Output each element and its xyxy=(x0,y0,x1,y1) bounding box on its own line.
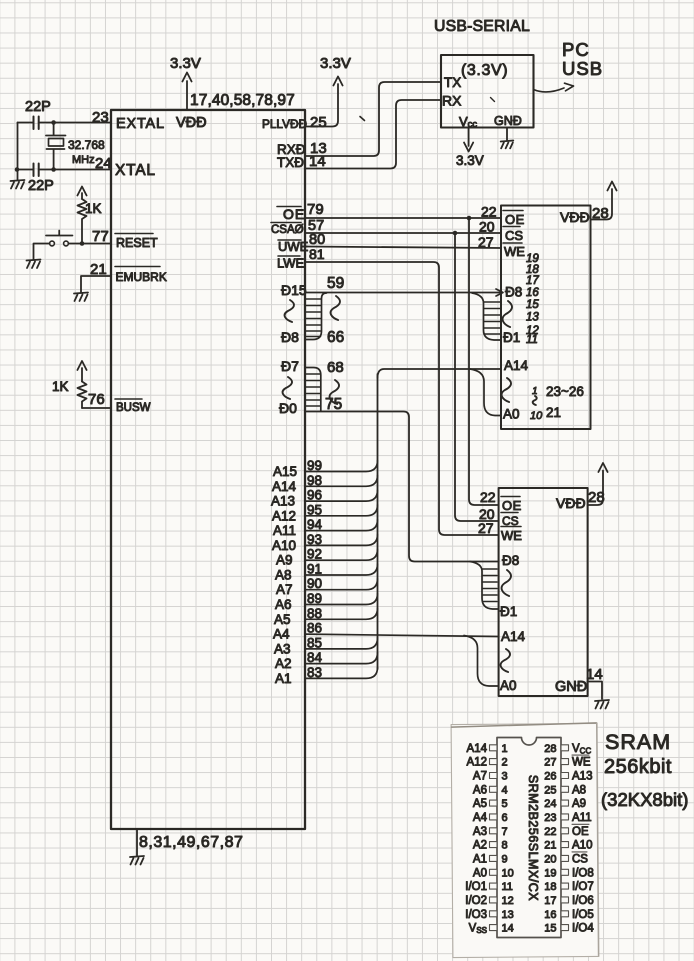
power arrow 3.3V VDD xyxy=(186,81,188,110)
svg-text:A9: A9 xyxy=(276,553,293,568)
svg-text:A8: A8 xyxy=(275,568,292,583)
svg-text:RX: RX xyxy=(442,93,462,109)
address bus vertical xyxy=(377,374,379,669)
DIP package outline xyxy=(497,738,561,938)
DIP pin 1 A14 xyxy=(467,743,508,755)
svg-text:WE: WE xyxy=(501,528,522,543)
svg-text:27: 27 xyxy=(544,757,556,769)
wire A4 pin 86 / address bus to SRAM2 A14 xyxy=(305,634,498,636)
svg-text:I/O2: I/O2 xyxy=(465,895,487,907)
wire LWE to SRAM2 WE xyxy=(305,262,499,535)
svg-text:28: 28 xyxy=(544,743,556,755)
squiggle SRAM1 D8-D1 xyxy=(503,301,512,327)
svg-text:26: 26 xyxy=(544,771,556,783)
DIP pin 7 A3 xyxy=(473,826,508,838)
svg-text:75: 75 xyxy=(325,396,342,413)
svg-text:GNĐ: GNĐ xyxy=(555,679,587,695)
junction crystal bottom xyxy=(51,167,56,172)
svg-text:8: 8 xyxy=(502,840,508,852)
wire CS branch to SRAM2 CS xyxy=(455,233,499,521)
svg-text:32.768: 32.768 xyxy=(68,138,105,152)
svg-text:A8: A8 xyxy=(572,784,586,796)
ground xyxy=(595,700,609,709)
svg-text:A2: A2 xyxy=(275,656,292,671)
svg-text:24: 24 xyxy=(544,798,556,810)
svg-text:A11: A11 xyxy=(273,523,296,538)
svg-text:GNĐ: GNĐ xyxy=(494,114,522,128)
squiggle SRAM2 D8-D1 xyxy=(502,570,511,596)
svg-text:A4: A4 xyxy=(273,627,290,642)
svg-text:PLLVĐĐ: PLLVĐĐ xyxy=(262,117,307,131)
wire SRAM1 VDD pin 28 to 3.3V xyxy=(591,189,613,220)
resistor R2 1K xyxy=(78,382,87,409)
svg-text:Đ0: Đ0 xyxy=(279,400,297,416)
svg-text:BUSW: BUSW xyxy=(116,402,151,414)
svg-text:A6: A6 xyxy=(473,784,487,796)
wire Vcc to 3.3V xyxy=(468,128,470,147)
wire SW1 to ground xyxy=(34,244,50,260)
bus hatch SRAM1 D8-D1 xyxy=(472,293,501,340)
svg-text:A10: A10 xyxy=(272,538,296,553)
svg-text:A13: A13 xyxy=(572,771,592,783)
wire GND pins 8,31,49,67,87 xyxy=(136,829,138,856)
wire A9 pin 92 to address bus xyxy=(305,549,378,560)
svg-text:27: 27 xyxy=(478,520,494,536)
svg-text:Đ1: Đ1 xyxy=(503,330,520,345)
wire A13 pin 96 to address bus xyxy=(305,490,378,501)
wire D15-D8 bus to SRAM1 D8 (pin 59) xyxy=(305,292,501,294)
svg-text:SRAM: SRAM xyxy=(605,730,671,754)
DIP pin 11 I/O1 xyxy=(465,881,513,893)
svg-text:25: 25 xyxy=(310,114,327,131)
stray pen tick 1 xyxy=(360,117,365,121)
wire ground rail left xyxy=(17,123,19,181)
svg-text:A0: A0 xyxy=(500,678,517,693)
svg-text:I/O5: I/O5 xyxy=(572,909,594,921)
svg-text:A9: A9 xyxy=(572,798,586,810)
svg-text:(32KX8bit): (32KX8bit) xyxy=(601,789,688,810)
squiggle pin numbers 1-10 xyxy=(533,396,537,405)
svg-text:XTAL: XTAL xyxy=(115,162,156,179)
stray pen tick 2 xyxy=(491,98,495,102)
svg-text:77: 77 xyxy=(92,228,109,245)
ground xyxy=(11,180,25,189)
svg-text:A11: A11 xyxy=(572,812,592,824)
svg-text:A14: A14 xyxy=(467,743,488,755)
DIP pin 9 A1 xyxy=(473,853,508,865)
svg-text:18: 18 xyxy=(544,881,556,893)
wire UWE to SRAM1 WE xyxy=(305,247,501,249)
svg-text:CSAØ: CSAØ xyxy=(271,224,304,236)
svg-text:20: 20 xyxy=(479,219,495,235)
svg-text:14: 14 xyxy=(586,666,603,683)
DIP pin 18 I/O7 xyxy=(544,881,593,893)
svg-text:A10: A10 xyxy=(572,840,592,852)
junction crystal top xyxy=(51,120,56,125)
DIP pin 5 A5 xyxy=(473,798,508,810)
svg-text:7: 7 xyxy=(502,826,508,838)
DIP pin 4 A6 xyxy=(473,784,508,796)
wire EXTAL cap segment xyxy=(18,122,34,124)
wire address bus branch to SRAM1 A0 xyxy=(470,369,501,416)
wire OE to SRAM1 OE xyxy=(305,217,501,219)
power arrow for R2 xyxy=(81,368,83,382)
DIP pin 16 I/O5 xyxy=(544,909,593,921)
wire USB GND stub xyxy=(506,128,508,141)
svg-text:25: 25 xyxy=(544,784,556,796)
svg-text:1: 1 xyxy=(502,743,508,755)
svg-text:11: 11 xyxy=(502,881,513,893)
svg-text:22P: 22P xyxy=(25,99,51,115)
junction left rail xyxy=(15,167,20,172)
svg-text:6: 6 xyxy=(502,812,508,824)
wire A2 pin 84 to address bus xyxy=(305,653,378,664)
svg-text:A7: A7 xyxy=(473,771,487,783)
svg-text:79: 79 xyxy=(307,201,324,218)
DIP pin 25 A8 xyxy=(544,784,586,796)
DIP pin 20 CS xyxy=(544,852,588,866)
svg-text:2: 2 xyxy=(502,757,508,769)
svg-text:LWE: LWE xyxy=(277,256,305,271)
svg-text:WE: WE xyxy=(572,757,591,769)
svg-text:14: 14 xyxy=(309,153,326,170)
svg-text:13: 13 xyxy=(502,909,514,921)
svg-text:A0: A0 xyxy=(473,867,487,879)
DIP pin 19 I/O8 xyxy=(544,867,593,879)
svg-text:15: 15 xyxy=(526,299,539,311)
svg-text:23: 23 xyxy=(544,812,556,824)
svg-text:OE: OE xyxy=(283,206,305,222)
svg-text:A1: A1 xyxy=(275,671,292,686)
ground xyxy=(74,293,88,302)
svg-text:5: 5 xyxy=(502,798,508,810)
svg-text:I/O4: I/O4 xyxy=(572,923,594,935)
DIP pin 14 VSS xyxy=(469,923,514,936)
svg-text:Đ8: Đ8 xyxy=(281,329,299,345)
squiggle D15-D8 xyxy=(285,300,294,322)
capacitor C2 22P xyxy=(34,164,39,177)
svg-text:Đ15: Đ15 xyxy=(281,282,307,298)
svg-text:A2: A2 xyxy=(473,840,487,852)
wire MCU TXD to USB RX xyxy=(305,100,441,169)
junction CS branch xyxy=(453,231,458,236)
DIP pin 21 A10 xyxy=(544,840,592,852)
squiggle D7-D0 xyxy=(283,377,292,399)
ground xyxy=(130,856,144,865)
svg-text:8,31,49,67,87: 8,31,49,67,87 xyxy=(139,834,243,851)
svg-text:Đ8: Đ8 xyxy=(502,553,519,568)
svg-text:23: 23 xyxy=(92,109,109,126)
svg-text:I/O6: I/O6 xyxy=(572,895,594,907)
wire address bus to SRAM1 A14 xyxy=(378,369,502,378)
SRAM U2 body xyxy=(501,206,591,430)
DIP pin 23 A11 xyxy=(544,812,591,824)
svg-text:15: 15 xyxy=(544,923,556,935)
svg-text:19: 19 xyxy=(544,867,556,879)
squiggle SRAM2 A14-A0 xyxy=(501,649,510,672)
MCU U1 body xyxy=(111,110,305,829)
wire BUSW pin 76 xyxy=(82,407,111,409)
svg-text:I/O1: I/O1 xyxy=(465,881,487,893)
squiggle 59-66 xyxy=(331,296,340,320)
wire A12 pin 95 to address bus xyxy=(305,505,378,516)
DIP pin 8 A2 xyxy=(473,840,508,852)
DIP pin 28 VCC xyxy=(544,743,591,756)
SRAM U3 body xyxy=(499,488,588,696)
ground xyxy=(27,260,41,269)
DIP pin 26 A13 xyxy=(544,771,592,783)
svg-text:TXĐ: TXĐ xyxy=(277,155,304,170)
junction RESET xyxy=(80,241,85,246)
svg-text:24: 24 xyxy=(95,155,112,172)
svg-text:3: 3 xyxy=(502,771,508,783)
wire XTAL pin 24 xyxy=(39,169,111,171)
DIP pin 27 WE xyxy=(544,755,591,769)
svg-text:22P: 22P xyxy=(28,178,54,194)
svg-text:16: 16 xyxy=(526,287,539,299)
svg-text:VĐĐ: VĐĐ xyxy=(560,209,590,225)
svg-text:17: 17 xyxy=(526,275,539,287)
svg-text:14: 14 xyxy=(502,923,514,935)
DIP pin 24 A9 xyxy=(544,798,586,810)
svg-text:21: 21 xyxy=(546,405,561,420)
svg-text:A3: A3 xyxy=(274,641,291,656)
svg-text:256kbit: 256kbit xyxy=(604,756,672,778)
ground xyxy=(501,141,514,149)
junction OE branch xyxy=(467,216,472,221)
svg-text:22: 22 xyxy=(544,826,556,838)
svg-text:A5: A5 xyxy=(274,612,291,627)
wire PLLVDD pin 25 to 3.3V xyxy=(305,84,338,127)
svg-text:4: 4 xyxy=(502,784,508,796)
svg-text:CS: CS xyxy=(505,228,523,243)
SRAM pinout datasheet clipping xyxy=(451,723,599,958)
svg-text:68: 68 xyxy=(327,359,344,376)
wire A3 pin 85 to address bus xyxy=(305,638,378,649)
svg-text:OE: OE xyxy=(502,498,522,513)
svg-text:3.3V: 3.3V xyxy=(456,153,484,168)
svg-text:28: 28 xyxy=(588,489,605,506)
svg-text:MHz: MHz xyxy=(72,154,95,166)
svg-text:I/O7: I/O7 xyxy=(572,881,594,893)
svg-text:21: 21 xyxy=(544,840,556,852)
wire EXTAL pin 23 xyxy=(39,122,111,124)
svg-text:A6: A6 xyxy=(275,597,292,612)
svg-text:EXTAL: EXTAL xyxy=(116,116,165,132)
svg-text:A14: A14 xyxy=(272,479,297,494)
svg-text:WE: WE xyxy=(504,244,525,259)
svg-text:1K: 1K xyxy=(85,201,102,216)
svg-text:VĐĐ: VĐĐ xyxy=(556,495,586,511)
DIP pin 17 I/O6 xyxy=(544,895,593,907)
svg-text:1K: 1K xyxy=(52,379,69,394)
svg-text:A3: A3 xyxy=(473,826,487,838)
svg-text:28: 28 xyxy=(592,205,609,222)
svg-text:I/O8: I/O8 xyxy=(572,867,594,879)
wire A8 pin 91 to address bus xyxy=(305,564,378,575)
svg-text:I/O3: I/O3 xyxy=(465,909,487,921)
svg-text:A0: A0 xyxy=(503,407,520,422)
svg-text:PC: PC xyxy=(562,39,590,60)
DIP pin 6 A4 xyxy=(473,812,508,824)
svg-text:12: 12 xyxy=(502,895,514,907)
svg-text:UWE: UWE xyxy=(278,239,309,254)
wire MCU RXD to USB TX xyxy=(305,82,441,156)
squiggle 68-75 xyxy=(330,380,339,404)
DIP pin 22 OE xyxy=(544,824,589,838)
svg-text:22: 22 xyxy=(481,204,497,220)
svg-text:13: 13 xyxy=(526,312,539,324)
wire A1 pin 83 to address bus xyxy=(305,667,378,678)
wire SRAM2 GND pin 14 xyxy=(588,682,603,700)
svg-text:Đ1: Đ1 xyxy=(500,604,517,619)
svg-text:76: 76 xyxy=(88,391,105,408)
svg-text:A4: A4 xyxy=(473,812,488,824)
svg-text:9: 9 xyxy=(502,853,508,865)
svg-text:3.3V: 3.3V xyxy=(320,55,351,72)
svg-text:A14: A14 xyxy=(504,358,529,373)
capacitor C1 22P xyxy=(34,117,39,130)
wire EMUBRK pin 21 xyxy=(81,276,111,293)
svg-text:A7: A7 xyxy=(276,582,293,597)
wire A14 pin 98 to address bus xyxy=(305,475,378,486)
svg-text:3.3V: 3.3V xyxy=(170,55,201,72)
svg-text:17,40,58,78,97: 17,40,58,78,97 xyxy=(190,92,295,109)
svg-text:A12: A12 xyxy=(467,757,487,769)
wire RESET pin 77 xyxy=(68,243,111,245)
arrow USB-SERIAL to PC USB xyxy=(534,88,565,92)
pushbutton SW1 xyxy=(50,241,55,246)
svg-text:A5: A5 xyxy=(473,798,487,810)
DIP pin 15 I/O4 xyxy=(544,923,594,935)
svg-text:A12: A12 xyxy=(272,508,296,523)
svg-text:USB: USB xyxy=(562,58,603,79)
svg-text:A14: A14 xyxy=(501,629,526,644)
svg-text:OE: OE xyxy=(572,826,589,838)
wire SRAM2 VDD pin 28 to 3.3V xyxy=(588,471,604,506)
svg-text:EMUBRK: EMUBRK xyxy=(116,270,167,284)
DIP pin 2 A12 xyxy=(467,757,508,769)
svg-text:(3.3V): (3.3V) xyxy=(461,62,508,79)
svg-text:20: 20 xyxy=(544,853,556,865)
svg-text:16: 16 xyxy=(544,909,556,921)
svg-text:27: 27 xyxy=(478,234,494,250)
svg-text:23~26: 23~26 xyxy=(546,384,584,399)
wire address bus branch to SRAM2 A0 xyxy=(464,636,498,687)
svg-text:17: 17 xyxy=(544,895,556,907)
svg-text:A1: A1 xyxy=(473,853,487,865)
wire OE branch to SRAM2 OE xyxy=(469,218,499,505)
bus hatch SRAM2 D8-D1 xyxy=(470,562,498,610)
DIP pin 10 A0 xyxy=(473,867,514,879)
bus hatch D7-D0 xyxy=(305,368,321,412)
squiggle SRAM1 A14-A0 xyxy=(502,378,511,402)
svg-text:A13: A13 xyxy=(271,494,295,509)
wire A15 pin 99 to address bus xyxy=(305,461,378,472)
svg-text:VĐĐ: VĐĐ xyxy=(176,115,207,131)
DIP pin 13 I/O3 xyxy=(465,909,513,921)
bus hatch D15-D8 xyxy=(305,293,327,340)
svg-text:59: 59 xyxy=(327,275,344,292)
wire CSA0 to SRAM1 CS xyxy=(305,232,501,234)
svg-text:TX: TX xyxy=(444,75,461,90)
svg-text:A15: A15 xyxy=(273,464,297,479)
svg-text:10: 10 xyxy=(530,410,543,422)
wire A5 pin 88 to address bus xyxy=(305,608,378,619)
DIP pin 12 I/O2 xyxy=(465,895,513,907)
wire A6 pin 89 to address bus xyxy=(305,594,378,605)
arrowhead into SRAM1 D8 xyxy=(496,289,503,296)
svg-text:RESET: RESET xyxy=(116,236,158,250)
power arrow 3.3V for R1 xyxy=(81,193,83,199)
wire XTAL cap segment xyxy=(18,169,34,171)
svg-text:USB-SERIAL: USB-SERIAL xyxy=(434,18,530,35)
svg-text:SRM2B256SLMX/CX: SRM2B256SLMX/CX xyxy=(526,775,540,901)
wire A10 pin 93 to address bus xyxy=(305,534,378,545)
svg-text:CS: CS xyxy=(572,853,588,865)
resistor R1 1K xyxy=(78,199,87,244)
wire D7-D0 bus to SRAM2 D8 (pin 75) xyxy=(305,412,499,562)
svg-text:66: 66 xyxy=(327,329,344,346)
svg-text:Đ7: Đ7 xyxy=(281,358,299,374)
svg-text:OE: OE xyxy=(505,212,525,227)
crystal Y1 32.768MHz xyxy=(46,123,66,170)
svg-text:81: 81 xyxy=(309,246,325,262)
DIP pin 3 A7 xyxy=(473,771,508,783)
wire A11 pin 94 to address bus xyxy=(305,520,378,531)
svg-text:22: 22 xyxy=(480,489,496,505)
svg-text:Đ8: Đ8 xyxy=(505,285,522,300)
wire A7 pin 90 to address bus xyxy=(305,579,378,590)
svg-text:10: 10 xyxy=(502,867,514,879)
svg-text:21: 21 xyxy=(90,261,107,278)
USB-SERIAL module body xyxy=(441,55,534,128)
svg-text:11: 11 xyxy=(526,334,538,346)
